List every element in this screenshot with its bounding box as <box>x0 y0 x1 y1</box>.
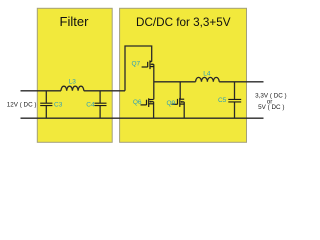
inductor L4 <box>196 77 220 81</box>
svg-text:12V ( DC ): 12V ( DC ) <box>7 102 37 109</box>
wire switch node down to Q9 drain <box>179 82 181 99</box>
wire switch node to L4 <box>154 81 196 83</box>
transistor Q9 <box>172 98 185 107</box>
wire Q7 source down to Q6 drain <box>153 64 155 99</box>
svg-text:L4: L4 <box>203 70 211 77</box>
transistor Q6 <box>141 98 154 107</box>
inductor L3 <box>61 86 84 91</box>
wire Q9 source to bottom rail <box>183 102 185 118</box>
svg-text:C3: C3 <box>54 101 63 108</box>
capacitor C3 plates <box>40 103 52 105</box>
capacitor C5 leads <box>234 82 236 118</box>
wire up-over to Q7 drain <box>125 46 152 91</box>
svg-text:Q7: Q7 <box>131 60 140 67</box>
Filter block box <box>37 8 112 142</box>
svg-text:Filter: Filter <box>60 14 90 29</box>
capacitor C4 plates <box>95 103 107 105</box>
DC/DC block box <box>120 8 247 142</box>
transistor Q7 <box>142 60 154 69</box>
svg-text:5V ( DC ): 5V ( DC ) <box>258 104 284 111</box>
svg-text:DC/DC for 3,3+5V: DC/DC for 3,3+5V <box>136 16 231 29</box>
wire top rail to DC/DC box <box>84 90 125 92</box>
wire L4 to output <box>219 81 263 83</box>
capacitor C5 plates <box>228 99 241 102</box>
svg-text:C5: C5 <box>218 97 227 104</box>
svg-text:C4: C4 <box>86 101 95 108</box>
capacitor C4 leads <box>99 91 101 118</box>
svg-text:Q9: Q9 <box>166 100 175 107</box>
wire bottom rail <box>21 117 264 119</box>
wire Q6 source to bottom rail <box>153 102 155 119</box>
svg-text:Q6: Q6 <box>133 99 142 106</box>
wire top rail left (12V+) <box>21 90 62 92</box>
capacitor C3 leads <box>45 91 47 118</box>
svg-text:L3: L3 <box>69 79 77 86</box>
